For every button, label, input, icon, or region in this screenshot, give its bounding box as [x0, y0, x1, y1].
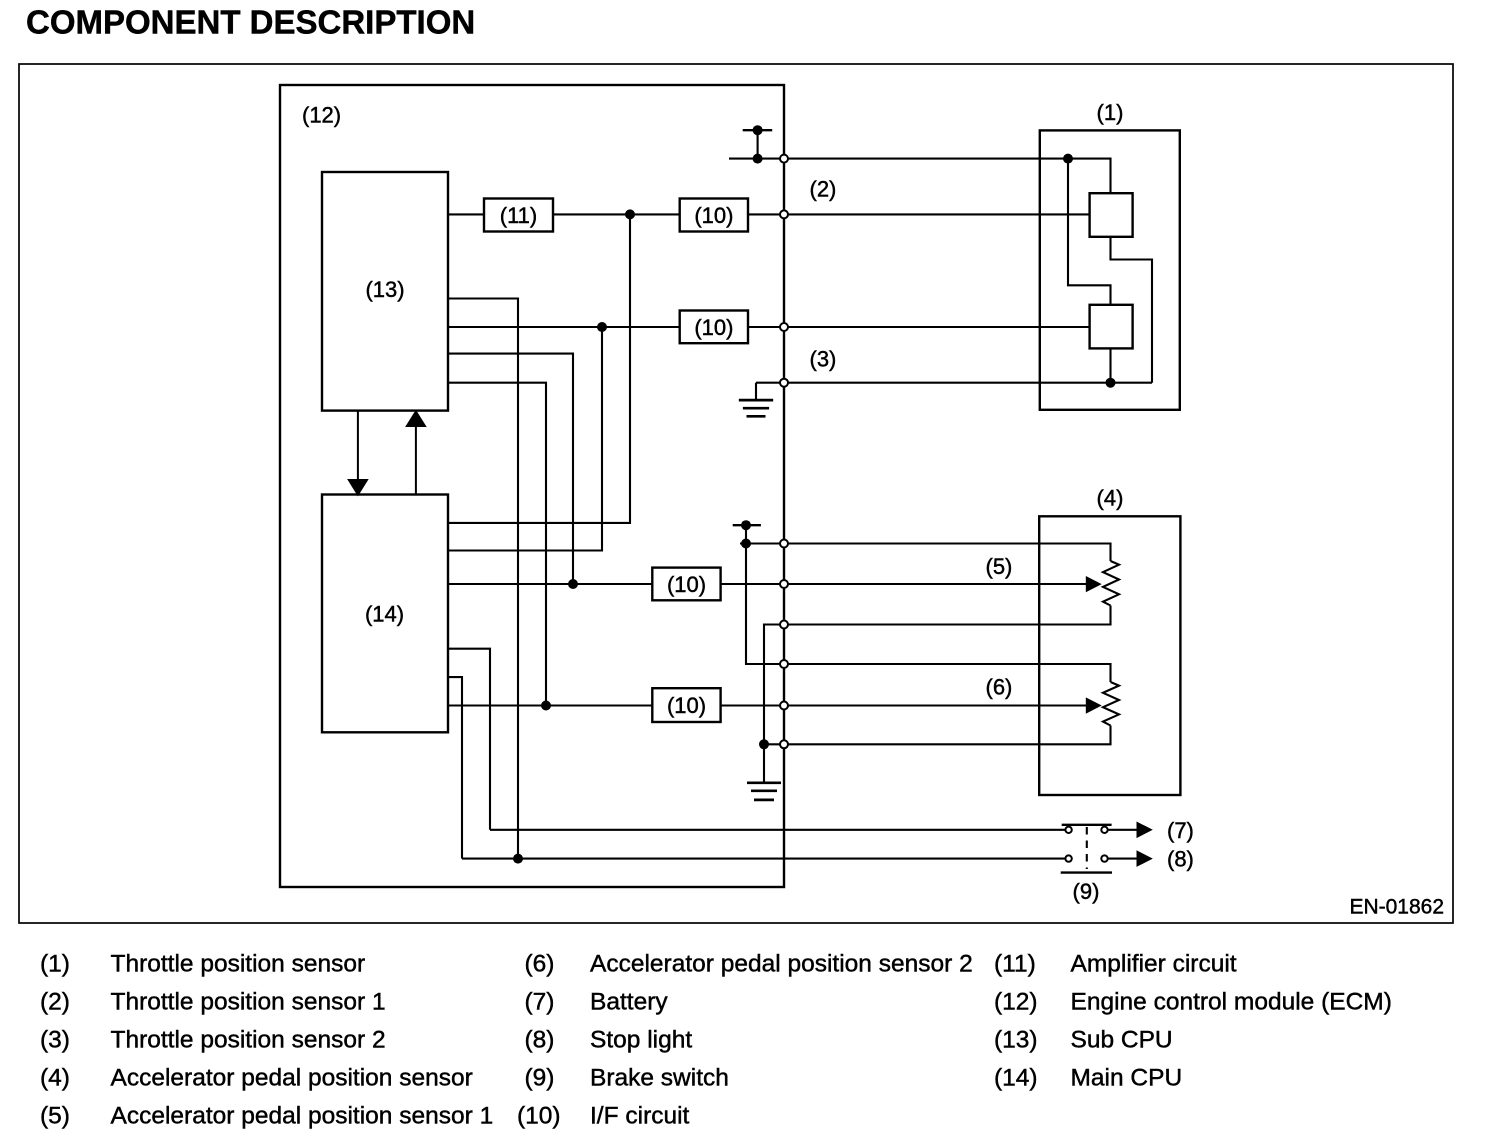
ground stub (ECM sensor ground 1)	[755, 383, 757, 400]
wire: main CPU to stop light row	[448, 677, 462, 859]
terminal: ECM pin (6)	[780, 702, 788, 710]
svg-text:(10): (10)	[694, 203, 733, 228]
svg-text:Brake switch: Brake switch	[590, 1065, 729, 1092]
arrow: to stop light (8)	[1137, 850, 1153, 867]
arrow: pot 1 wiper	[1086, 576, 1102, 592]
svg-text:(13): (13)	[365, 277, 404, 302]
potentiometer 1 zigzag	[1103, 561, 1119, 606]
I/F circuit (10) box 1	[680, 199, 748, 232]
svg-text:Throttle position sensor 2: Throttle position sensor 2	[111, 1027, 386, 1054]
wire: sub CPU output to node at wire 6	[448, 383, 546, 706]
junction dot: throttle sensor supply node	[1063, 154, 1073, 164]
I/F circuit (10) box 2	[680, 311, 748, 344]
brake switch contact: battery out	[1101, 827, 1107, 833]
I/F circuit (10) box 4	[652, 688, 720, 722]
svg-text:Accelerator pedal position sen: Accelerator pedal position sensor	[111, 1065, 473, 1092]
brake switch (9) top contact bar	[1062, 824, 1112, 826]
terminal: ECM pin ground 2	[780, 740, 788, 748]
svg-text:Engine control module (ECM): Engine control module (ECM)	[1071, 989, 1392, 1016]
svg-text:(14): (14)	[365, 601, 404, 626]
svg-text:(7): (7)	[1167, 818, 1194, 843]
junction dot: throttle sensor ground node	[1106, 378, 1116, 388]
terminal: ECM pin supply 1	[780, 155, 788, 163]
diagram outer frame	[19, 64, 1453, 923]
arrow: pot 2 wiper	[1086, 697, 1102, 713]
wire: brake switch to battery arrow	[1109, 829, 1138, 831]
brake switch (9) bottom contact bar	[1061, 871, 1112, 873]
svg-text:(11): (11)	[994, 951, 1036, 978]
svg-text:(3): (3)	[40, 1027, 70, 1054]
svg-text:Throttle position sensor: Throttle position sensor	[111, 951, 366, 978]
svg-text:Sub CPU: Sub CPU	[1071, 1027, 1173, 1054]
ground symbol 1	[739, 400, 773, 416]
svg-text:(6): (6)	[986, 675, 1013, 700]
svg-text:(8): (8)	[525, 1027, 555, 1054]
wire: main CPU input from I/F 2 net	[448, 327, 602, 551]
wire: I/F 3 to pot 1 wiper	[721, 583, 1087, 585]
potentiometer 2 zigzag	[1103, 682, 1119, 726]
junction dot: power feed top 1	[753, 125, 763, 135]
svg-text:EN-01862: EN-01862	[1349, 896, 1444, 919]
throttle sensor inner: element 2 bottom to ground net	[1109, 348, 1111, 382]
svg-text:(2): (2)	[40, 989, 70, 1016]
svg-text:(5): (5)	[986, 554, 1013, 579]
svg-text:(10): (10)	[517, 1103, 561, 1130]
wire: sub CPU to I/F 2	[448, 326, 680, 328]
wire: battery row to brake switch	[490, 829, 1065, 831]
junction dot: I/F 3 net	[568, 579, 578, 589]
junction dot: I/F 2 net	[597, 322, 607, 332]
junction dot: power feed bottom 1	[753, 154, 763, 164]
svg-text:(7): (7)	[525, 989, 555, 1016]
svg-text:Amplifier circuit: Amplifier circuit	[1071, 951, 1237, 978]
power feed stub	[757, 130, 759, 158]
junction dot: I/F 4 net	[541, 701, 551, 711]
wire: main CPU to I/F 3	[448, 583, 652, 585]
wire: main CPU to battery row	[448, 649, 490, 830]
terminal: ECM pin ground 1	[780, 379, 788, 387]
svg-text:(14): (14)	[994, 1065, 1038, 1092]
ECM (12) engine control module box	[280, 85, 784, 887]
svg-text:(4): (4)	[40, 1065, 70, 1092]
svg-text:(10): (10)	[667, 693, 706, 718]
arrow: main CPU to sub CPU	[407, 412, 425, 495]
svg-text:Battery: Battery	[590, 989, 668, 1016]
throttle position sensor (1) box	[1040, 130, 1180, 409]
terminal: ECM pin pot1 return	[780, 621, 788, 629]
wire: pot 2 bottom return	[764, 726, 1111, 745]
main CPU (14) box	[322, 495, 448, 733]
wire: amplifier output to I/F 1	[553, 213, 680, 215]
power feed symbol crossbar (pedal sensor supply)	[733, 524, 761, 526]
wire: sub CPU output to node at wire 5	[448, 354, 573, 584]
svg-text:Accelerator pedal position sen: Accelerator pedal position sensor 2	[590, 951, 973, 978]
svg-text:(1): (1)	[1097, 100, 1124, 125]
terminal: ECM pin (2)	[780, 210, 788, 218]
svg-text:(9): (9)	[525, 1065, 555, 1092]
wire: main CPU to I/F 4	[448, 704, 652, 706]
brake switch contact: stop light out	[1101, 855, 1107, 861]
wire: supply branch to pot 2 top	[746, 544, 1111, 683]
throttle sensor element 2 square	[1090, 305, 1133, 349]
terminal: ECM pin (3) signal	[780, 323, 788, 331]
svg-text:(4): (4)	[1097, 486, 1124, 511]
svg-text:(13): (13)	[994, 1027, 1038, 1054]
terminal: ECM pin pot2 feed	[780, 660, 788, 668]
svg-text:(12): (12)	[994, 989, 1038, 1016]
svg-text:Stop light: Stop light	[590, 1027, 692, 1054]
svg-text:(9): (9)	[1073, 879, 1100, 904]
wire: sensor ground return (3)	[756, 382, 1152, 384]
amplifier circuit (11) box	[484, 199, 553, 232]
wire: sub CPU output to stop light branch	[448, 299, 518, 859]
throttle sensor element 1 square	[1090, 193, 1133, 237]
svg-text:I/F circuit: I/F circuit	[590, 1103, 690, 1130]
ground stub 2	[763, 744, 765, 782]
svg-text:(1): (1)	[40, 951, 70, 978]
wire: I/F 1 to throttle sensor element 1 top feed	[748, 213, 1090, 215]
wire: sensor supply to throttle sensor (1)	[729, 159, 1111, 194]
svg-text:(3): (3)	[810, 346, 837, 371]
sub CPU (13) box	[322, 172, 448, 411]
I/F circuit (10) box 3	[652, 568, 720, 601]
ground symbol 2	[747, 783, 781, 800]
throttle sensor inner: supply to element 2	[1068, 159, 1111, 305]
junction dot: pedal ground node	[759, 739, 769, 749]
wire: stop light row to brake switch	[462, 858, 1065, 860]
wire: main CPU input from amplifier net	[448, 214, 630, 523]
svg-text:(8): (8)	[1167, 847, 1194, 872]
svg-text:(10): (10)	[667, 572, 706, 597]
svg-text:(11): (11)	[500, 203, 538, 228]
svg-text:Main CPU: Main CPU	[1071, 1065, 1183, 1092]
brake switch mechanical link (dashed)	[1086, 827, 1088, 869]
svg-text:(12): (12)	[302, 103, 341, 128]
svg-text:(5): (5)	[40, 1103, 70, 1130]
arrow: sub CPU to main CPU	[349, 411, 367, 495]
wire: pot 1 bottom return	[764, 606, 1111, 745]
brake switch contact: stop light in	[1065, 855, 1071, 861]
svg-text:(6): (6)	[525, 951, 555, 978]
terminal: ECM pin (5)	[780, 580, 788, 588]
svg-text:Throttle position sensor 1: Throttle position sensor 1	[111, 989, 386, 1016]
junction dot: amplifier net	[625, 209, 635, 219]
wire: sub CPU to amplifier input	[448, 213, 484, 215]
junction dot: power feed bottom 2	[741, 539, 751, 549]
arrow: to battery (7)	[1137, 822, 1153, 839]
junction dot: stop light net	[513, 854, 523, 864]
svg-text:(2): (2)	[810, 177, 837, 202]
brake switch contact: battery in	[1065, 827, 1071, 833]
svg-text:Accelerator pedal position sen: Accelerator pedal position sensor 1	[111, 1103, 494, 1130]
junction dot: power feed top 2	[741, 520, 751, 530]
wire: I/F 2 to throttle sensor element 2	[748, 326, 1090, 328]
terminal: ECM pin supply 2	[780, 540, 788, 548]
svg-text:(10): (10)	[694, 315, 733, 340]
wire: brake switch to stop light arrow	[1109, 858, 1138, 860]
power feed stub 2	[745, 525, 747, 543]
wire: I/F 4 to pot 2 wiper	[721, 704, 1087, 706]
wire: supply to pot 1 top	[740, 544, 1111, 562]
power feed symbol crossbar (throttle sensor supply)	[743, 129, 773, 131]
throttle sensor inner: element 1 bottom to ground net	[1111, 237, 1153, 383]
accelerator pedal position sensor (4) box	[1039, 516, 1180, 795]
svg-text:COMPONENT DESCRIPTION: COMPONENT DESCRIPTION	[26, 4, 475, 41]
